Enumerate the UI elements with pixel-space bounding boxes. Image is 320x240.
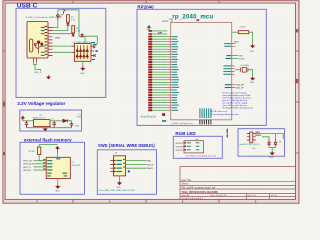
wire diodes join to ground [269,145,276,151]
net tick below [162,120,166,122]
svg-text:Sheet: /: Sheet: / [182,183,190,186]
wire USB_DM short row [152,30,167,32]
wire crystal left branch [235,69,240,71]
svg-text:GND: GND [250,51,255,53]
svg-text:SS14: SS14 [77,116,82,118]
svg-text:VBUS: VBUS [55,38,61,40]
capacitor C1 [25,121,28,128]
U4 GND pin wire down [82,61,84,66]
svg-text:RUN: RUN [234,41,239,43]
no-connect cross on U4 pin [93,45,96,48]
svg-text:5.1K: 5.1K [76,31,81,33]
switch SW1 body [250,132,253,143]
resistor R2 5.1K [72,26,75,33]
power flag symbol on VBUS [56,14,59,19]
border zone markers [3,29,299,155]
svg-text:Date: 2025-07-19: Date: 2025-07-19 [210,194,227,197]
wire SPI0_CSn to U3 [34,160,47,162]
wire GPIO24 stub [183,145,184,147]
ground symbol below U4 [81,66,85,70]
wire RUN pin to R4 [232,31,239,33]
wire branch to U4 top [84,36,86,43]
TVS diode array U4 body [75,44,92,62]
ground cross below R1 [67,22,70,26]
svg-text:C1: C1 [22,118,24,120]
regulator U2 body [34,120,51,127]
LED D4 body [184,141,204,153]
pin name USB_DP right [225,87,232,88]
svg-text:GND: GND [55,191,60,193]
ground symbol below J2 [118,181,122,185]
U4 pin stubs right [91,43,94,56]
svg-text:C2: C2 [52,118,54,120]
svg-text:#2 use design datasheet note: #2 use design datasheet note [211,113,240,116]
wire VBUS loop rail [58,10,98,44]
wire SPI0_RX to U3 [34,169,47,171]
junction node on SWDIO wire [128,170,130,172]
wire XIN [232,55,239,57]
svg-text:SWCLK: SWCLK [146,164,154,166]
J1 pin stubs right side [48,28,53,56]
section box RP2040 [137,9,266,125]
wire SWD from J2 [126,160,146,162]
U4 internal diodes [76,45,88,59]
wire R4 to ground branch [249,32,253,44]
svg-text:BOOT: BOOT [255,135,262,137]
border frame inner [5,3,295,199]
diode D1 [63,119,68,122]
wire diode to C3 [68,121,72,123]
global labels GPIO0-GPIO29 [148,36,152,112]
pin name XOUT [225,58,231,59]
wire GPIO23 stub [183,142,184,144]
title block text [182,179,278,200]
svg-text:R8: R8 [279,141,281,143]
wire VBUS from J1 [53,16,58,28]
border frame outer [3,1,299,204]
svg-text:Rev: 1.0: Rev: 1.0 [248,195,257,197]
U1 right pin names QSPI rows [223,43,231,75]
pin number above U1 top edge [196,20,199,21]
svg-text:GND: GND [269,157,274,159]
note text block [211,91,254,116]
J1 pin numbers [45,26,48,55]
wire SWCLK from J2 [126,163,146,165]
svg-text:Id: 1/1: Id: 1/1 [271,195,278,197]
wire J2 GND pin [119,176,121,181]
crystal X1 [241,67,248,72]
wire XOUT [232,57,239,59]
wire bottom ground rail [27,127,72,128]
svg-text:chip, 3x3 for all to the reg: chip, 3x3 for all to the reg [222,104,247,107]
diode D3 [274,139,278,145]
ground symbol regulator rail [44,128,47,131]
svg-text:NOTE: refer to rp: NOTE: refer to rp [211,110,228,113]
svg-text:XOUT: XOUT [239,58,245,60]
microcontroller U1 body [171,22,232,119]
pin name XIN [226,55,231,56]
power arrow +3V3 flash [56,147,59,152]
svg-text:SWD (SERIAL WIRE DEBUG): SWD (SERIAL WIRE DEBUG) [98,143,155,148]
svg-text:SPI0_TX: SPI0_TX [23,167,31,169]
svg-text:RP2040: RP2040 [137,5,154,10]
wire shield pins to ground [34,62,41,71]
net label at VBUS corner [93,44,97,45]
D4 pin names [187,142,200,150]
capacitor C2 [53,121,56,128]
svg-text:GND: GND [250,82,255,84]
J2 pin names [116,160,121,172]
svg-text:User Title: User Title [182,179,192,182]
J1 pin names inside body [41,27,45,56]
svg-text:Conn_ARM_JTAG_SWD_10Pin/TC2030: Conn_ARM_JTAG_SWD_10Pin/TC2030 [99,189,136,192]
svg-text:external flash memory: external flash memory [24,138,72,143]
svg-text:SPI0_SCLK: SPI0_SCLK [23,164,34,166]
USB-C receptacle opening glyph [29,39,32,52]
svg-text:SWD: SWD [146,161,151,163]
flash memory U3 body [46,157,70,178]
section box 3.3V regulator [20,110,82,131]
svg-text:Run/BOOTSEL_(GPIO): Run/BOOTSEL_(GPIO) [239,144,259,146]
wire U2 output [50,120,62,122]
svg-text:USB C: USB C [17,3,38,10]
U1 right pin stubs [232,44,236,75]
section box SWD [97,150,156,195]
power arrow +3V3 left [148,26,151,31]
ground cross below R2 [72,33,75,37]
U3 pin numbers [43,159,45,169]
svg-text:rp2040_minimal_mcu: rp2040_minimal_mcu [172,122,194,125]
wire right rail [276,134,284,139]
no-connect cross on U4 pin 2 [93,54,95,56]
svg-text:3.3V Voltage regulator: 3.3V Voltage regulator [17,101,65,106]
svg-text:GPIO25: GPIO25 [176,150,183,152]
U4 pin stubs left [72,46,75,52]
svg-text:10k: 10k [252,148,255,150]
wire SPI0_TX to U3 [34,166,47,168]
section box USB boot [238,129,285,157]
svg-text:SPI0_CSn: SPI0_CSn [23,161,32,163]
pin name USB_DM right [225,84,232,85]
svg-text:5.1K: 5.1K [71,20,76,22]
svg-text:the Reg RP2040 chip datasheet: the Reg RP2040 chip datasheet [222,107,253,110]
title block frame [180,167,296,200]
svg-text:SPI0_RX: SPI0_RX [23,170,32,172]
wire SPI0_SCLK to U3 [34,163,47,165]
U3 pin names [47,160,52,170]
J2 pin stubs left [110,161,113,172]
U1 USB pin stubs right [232,85,235,88]
svg-text:Size: A4: Size: A4 [182,194,190,197]
junction node near left bottom [162,113,165,116]
U4 right pin name dashes [92,42,95,60]
wire SW1 to pull resistors [256,134,276,139]
power arrow +5V input [21,116,24,121]
border zone ticks [3,1,299,204]
section box external flash memory [20,142,85,194]
net label vertical near boot box [227,129,228,138]
J2 internal pin marks [114,160,116,172]
svg-text:GND: GND [80,73,85,75]
svg-text:IOVDD: IOVDD [162,21,169,23]
diode D2 [267,139,271,145]
capacitor C3 [70,123,73,128]
wire USB_DP short row [152,33,167,35]
wire U3 GND pin [57,179,59,185]
svg-text:R4 1K: R4 1K [240,26,246,28]
power cross junction [81,33,84,37]
svg-text:pins or 1 phial (by the) rail: pins or 1 phial (by the) rail [222,99,247,102]
svg-text:X1 12MHz: X1 12MHz [240,65,249,67]
svg-text:W25Q128: W25Q128 [72,165,81,167]
U1 bottom pin names vertical [199,108,211,118]
svg-text:27R: 27R [158,33,162,35]
U1 left pin names [172,36,180,111]
resistor R4 [238,31,248,34]
svg-text:R3 10K: R3 10K [29,151,36,153]
wire CC1 to resistor R1 [53,22,68,30]
svg-text:GPIO23: GPIO23 [176,143,183,145]
svg-text:+3V3: +3V3 [74,126,80,128]
svg-text:RGB LED: RGB LED [175,131,196,136]
ground symbol right of R4 [251,44,255,48]
wires GPIO0-GPIO29 left bank [152,37,167,111]
svg-text:SWDIO: SWDIO [146,168,153,170]
svg-text:AMS1117-3.3: AMS1117-3.3 [33,117,46,120]
wire SWDIO from J2 [126,167,146,169]
svg-text:Title: RP2040 DEV BOARD: Title: RP2040 DEV BOARD [182,190,218,194]
svg-text:GPIO24: GPIO24 [176,146,183,148]
svg-text:USB_DP: USB_DP [236,88,245,90]
svg-text:XIN: XIN [239,56,243,58]
ground symbol below shield [47,75,50,79]
wire D- from J1 to U4 [53,51,75,53]
global label tags for USB rows [148,30,152,35]
ground symbol below U3 [56,184,60,188]
D4 internal pin marks [184,142,186,150]
svg-text:rp_2040_mcu: rp_2040_mcu [172,15,213,21]
svg-text:USB_DM: USB_DM [236,85,245,87]
svg-text:ws_2812b_controllable_led_smd: ws_2812b_controllable_led_smd [186,154,217,157]
U3 extra pin names [47,158,67,176]
section box USB C [16,8,106,97]
svg-text:GND: GND [116,187,121,189]
svg-text:Gnd,AGnd,3v3: Gnd,AGnd,3v3 [141,115,157,118]
section box RGB LED [173,136,222,158]
wire GPIO25 stub [183,149,184,151]
J2 pin numbers [123,159,125,168]
border margin tint bands [3,1,300,204]
J1 shield pin stubs bottom [34,58,37,62]
junction node on U4 right pin [95,50,97,52]
ground symbol below crystal branch [251,77,255,80]
svg-text:GND_S: GND_S [34,72,42,74]
connector J2 body [114,156,126,176]
ground symbol boot section [270,152,274,155]
wire IOVDD pin [169,19,172,22]
wire D+ from J1 to U4 [53,45,75,47]
wire crystal right branch [248,70,253,77]
U1 bottom pin stubs GND [200,120,211,125]
wire CC2 to resistor R2 [53,32,74,35]
resistor R3 pull-up [38,147,41,155]
connector J1 USB-C receptacle body [27,22,48,58]
svg-text:KiCad E.D.A. kicad 9.0: KiCad E.D.A. kicad 9.0 [182,197,204,200]
wire flash VCC pin [50,145,57,158]
wire R3 bottom to CS net [39,155,42,161]
border zone digits [37,201,257,203]
SW1 pin stubs [247,134,256,140]
resistor R1 5.1K [67,15,70,23]
USB trident logo [34,41,43,54]
wire 5V input to U2 [23,120,34,122]
U1 left pin stubs [167,37,171,111]
wire R3 top to 3V3 [39,145,50,147]
